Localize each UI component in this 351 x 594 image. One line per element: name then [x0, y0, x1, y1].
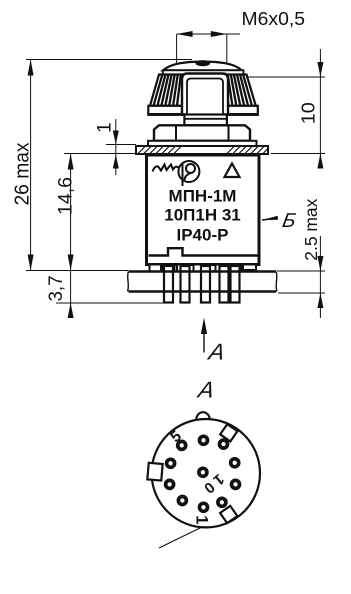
svg-text:М6х0,5: М6х0,5 [242, 8, 306, 29]
svg-text:26 max: 26 max [11, 142, 34, 206]
svg-text:2.5 max: 2.5 max [301, 198, 321, 260]
svg-text:1: 1 [193, 515, 211, 524]
svg-text:3,7: 3,7 [46, 276, 67, 302]
svg-text:10П1Н 31: 10П1Н 31 [164, 206, 241, 225]
svg-text:МПН-1М: МПН-1М [169, 187, 237, 206]
svg-text:10: 10 [299, 102, 319, 124]
svg-text:1: 1 [95, 122, 116, 133]
svg-text:IP40-Р: IP40-Р [177, 226, 229, 245]
svg-text:14,6: 14,6 [56, 177, 77, 215]
